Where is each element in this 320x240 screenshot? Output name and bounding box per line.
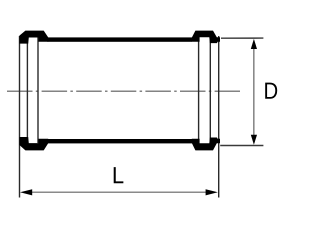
body top wall line [48, 37, 193, 41]
label L [114, 167, 124, 183]
D top extension line [221, 37, 263, 39]
body bottom wall line [48, 139, 193, 143]
D arrow down [251, 135, 257, 145]
left end face line [19, 36, 21, 198]
left socket inner line B [37, 38, 39, 144]
label D [265, 83, 277, 99]
L arrow right [206, 189, 218, 195]
L arrow left [20, 189, 32, 195]
right end face line [218, 36, 220, 198]
left top socket bead [19, 31, 48, 44]
D arrow up [251, 39, 257, 49]
right socket inner line B [198, 38, 200, 144]
D bottom extension line [220, 145, 263, 147]
L dimension line [26, 191, 212, 193]
right top socket bead [192, 31, 220, 43]
left bottom socket bead [19, 137, 48, 150]
centerline [7, 90, 240, 92]
right socket inner line A [209, 38, 211, 144]
right bottom socket bead [192, 138, 220, 151]
left socket inner line A [26, 38, 28, 144]
D dimension line [253, 44, 255, 140]
